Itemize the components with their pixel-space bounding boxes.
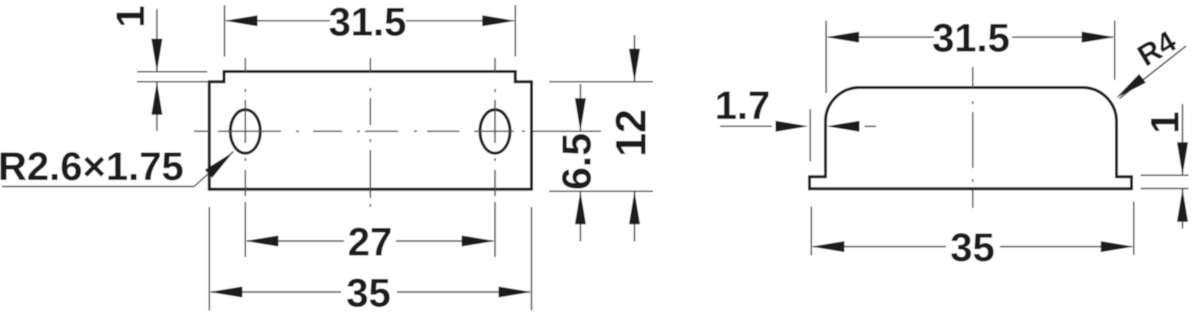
dimension 1.7: right arrow tail and arrowhead	[865, 125, 877, 127]
right view: vertical centerline	[972, 67, 974, 208]
dimension 31.5 left view: left arrowhead	[225, 15, 258, 26]
dimension 27: left arrowhead	[245, 236, 278, 247]
dimension 1 top-left: upper tail and arrowhead	[156, 9, 158, 72]
leader R2.6x1.75: arrowhead	[205, 152, 233, 178]
left view: right slotted hole	[480, 110, 510, 154]
left view: left slotted hole	[230, 110, 260, 154]
dimension 1 top-left: extension lines	[137, 71, 208, 73]
left view: vertical centerline of left hole	[244, 58, 246, 257]
dimension 35 left view: extension lines	[208, 207, 210, 311]
leader R4: arrowhead	[1116, 74, 1146, 98]
svg-text:1: 1	[1144, 111, 1188, 133]
dimension 35 right view: left arrowhead	[811, 241, 844, 252]
dimension 31.5 left view: right arrowhead	[482, 15, 515, 26]
left view: part outline (top view)	[209, 72, 531, 190]
leader R4: leader line	[1120, 46, 1187, 99]
svg-text:35: 35	[346, 272, 391, 316]
dimension 35 right view: dimension line	[813, 246, 946, 248]
dimension 35 left view: right arrowhead	[499, 287, 532, 298]
svg-text:31.5: 31.5	[329, 0, 407, 44]
dimension 27: dimension line	[247, 240, 344, 242]
leader R2.6x1.75: underline and leader line	[2, 186, 194, 188]
svg-text:1.7: 1.7	[715, 84, 771, 128]
dimension 31.5 right view: dimension line	[828, 36, 934, 38]
left view: middle vertical centerline	[369, 58, 371, 207]
dimension 31.5 right view: extension lines	[825, 21, 827, 93]
svg-text:12: 12	[608, 109, 656, 157]
left view: vertical centerline of right hole	[494, 58, 496, 257]
dimension 31.5 right view: left arrowhead	[826, 32, 859, 43]
dimension 1 right view: upper tail and arrowhead	[1182, 104, 1184, 175]
dimension 31.5 right view: right arrowhead	[1082, 32, 1115, 43]
dimension 35 left view: left arrowhead	[209, 287, 242, 298]
dimension 35 left view: dimension line	[211, 291, 341, 293]
svg-text:27: 27	[348, 221, 393, 265]
left view: horizontal centerline	[194, 130, 601, 132]
svg-text:R2.6×1.75: R2.6×1.75	[0, 145, 184, 189]
dimension 35 right view: extension lines	[810, 207, 812, 256]
dimension 27: right arrowhead	[462, 236, 495, 247]
dimension 31.5 left view: extension lines	[224, 5, 226, 57]
right view: part outline (section profile)	[810, 88, 1132, 189]
dimension 1.7: left arrow tail and arrowhead	[720, 125, 772, 127]
dimension 31.5 left view: dimension line	[226, 20, 330, 22]
dimension 35 right view: right arrowhead	[1101, 241, 1134, 252]
dimension 12: lower tail and arrowhead	[634, 191, 636, 241]
dimension 1 right view: extension lines	[1141, 174, 1189, 176]
svg-text:35: 35	[950, 226, 995, 270]
dimension 1 top-left: lower tail and arrowhead	[156, 82, 158, 131]
svg-text:6.5: 6.5	[554, 133, 600, 190]
dimension 1 right view: lower tail and arrowhead	[1182, 189, 1184, 229]
svg-text:31.5: 31.5	[932, 17, 1010, 61]
svg-text:1: 1	[109, 5, 153, 27]
dimension 6.5: lower tail and arrowhead	[579, 191, 581, 241]
dimension 6.5: upper tail and arrowhead	[579, 84, 581, 131]
dimension 12: upper tail and arrowhead	[634, 35, 636, 82]
dimensions 6.5 and 12: shared extension lines	[549, 81, 653, 83]
dimension 1.7: extension line of flange end	[809, 109, 811, 162]
